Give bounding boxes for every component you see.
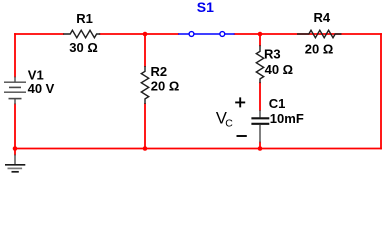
svg-text:C: C xyxy=(225,117,233,129)
svg-text:C1: C1 xyxy=(269,96,286,111)
svg-text:R1: R1 xyxy=(76,11,93,26)
svg-text:R3: R3 xyxy=(264,46,281,61)
svg-text:R2: R2 xyxy=(151,64,168,79)
svg-text:40 V: 40 V xyxy=(28,81,55,96)
svg-text:20 Ω: 20 Ω xyxy=(151,79,180,94)
svg-text:20 Ω: 20 Ω xyxy=(305,42,334,57)
svg-text:R4: R4 xyxy=(314,10,331,25)
svg-text:40 Ω: 40 Ω xyxy=(265,62,294,77)
svg-text:30 Ω: 30 Ω xyxy=(69,40,98,55)
svg-text:10mF: 10mF xyxy=(270,111,304,126)
svg-text:S1: S1 xyxy=(197,0,214,15)
